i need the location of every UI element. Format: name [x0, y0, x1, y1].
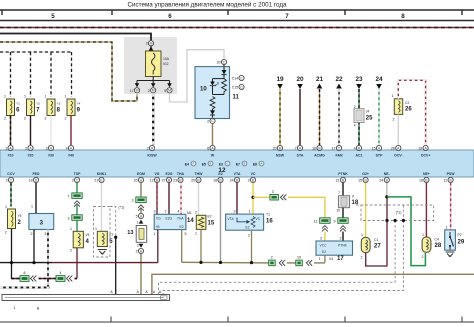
connector 11 on VCC wire [320, 218, 330, 224]
ECM pin #10 [5, 145, 13, 150]
svg-text:25: 25 [366, 116, 373, 122]
wire VC to comp17 [288, 197, 325, 218]
svg-text:2: 2 [70, 249, 72, 253]
svg-text:6: 6 [168, 13, 172, 20]
svg-text:VC: VC [251, 172, 256, 176]
ECM pin TSP [72, 177, 80, 182]
svg-text:15: 15 [372, 147, 376, 151]
svg-text:Система управления двигателем: Система управления двигателем моделей с … [127, 1, 287, 9]
ECM pin #30 [46, 145, 54, 150]
wire FED black [35, 183, 37, 214]
svg-text:1: 1 [446, 226, 448, 230]
connector 10 on E2 trunk [296, 260, 303, 266]
svg-text:20: 20 [134, 179, 138, 183]
svg-text:PTNK: PTNK [338, 172, 348, 176]
ECM pin VC [248, 177, 256, 182]
svg-text:IG2: IG2 [163, 62, 169, 66]
svg-text:E8: E8 [253, 162, 257, 166]
svg-text:M: M [136, 89, 139, 93]
svg-text:2: 2 [361, 256, 363, 260]
wire NE- stub [386, 183, 388, 197]
svg-text:1: 1 [5, 147, 7, 151]
svg-text:1: 1 [249, 209, 251, 213]
svg-text:21: 21 [336, 179, 340, 183]
svg-text:VC: VC [256, 217, 261, 221]
svg-text:20: 20 [296, 76, 304, 83]
svg-text:8: 8 [57, 108, 61, 114]
E2 common trunk [182, 261, 269, 264]
svg-text:1: 1 [137, 221, 139, 225]
comp10 internals: diode top [223, 65, 225, 70]
svg-text:3: 3 [132, 199, 134, 203]
svg-text:2: 2 [18, 220, 22, 226]
wire: maroon/black dashed power bus [0, 27, 474, 29]
svg-text:E2: E2 [208, 215, 212, 219]
ruler strip top [0, 10, 474, 21]
svg-text:4: 4 [354, 147, 356, 151]
ECM pin IGSW [147, 145, 155, 150]
wire PTNK [342, 183, 344, 196]
svg-text:G2+: G2+ [362, 172, 369, 176]
svg-text:#20: #20 [28, 154, 34, 158]
svg-text:10A: 10A [163, 57, 170, 61]
svg-text:1: 1 [24, 95, 26, 99]
ECM pin FAN [332, 145, 342, 150]
wire: black bus feeding fuse [0, 34, 151, 41]
wire comp2 down [12, 229, 21, 279]
ECM pin STA [295, 145, 303, 150]
svg-text:2: 2 [31, 232, 33, 236]
arrow up [139, 220, 144, 224]
svg-text:FAN: FAN [336, 154, 343, 158]
ECM pin G2+ [358, 177, 368, 182]
svg-text:1: 1 [195, 232, 197, 236]
svg-text:M1: M1 [187, 211, 192, 215]
ECM pin ACMG [312, 145, 322, 150]
svg-text:2: 2 [137, 244, 139, 248]
svg-text:15: 15 [208, 221, 215, 227]
wire black dashed off page bottom [0, 287, 50, 289]
junction pin 5 [136, 213, 144, 218]
svg-text:IGSW: IGSW [147, 154, 157, 158]
svg-text:3: 3 [234, 209, 236, 213]
svg-text:E3: E3 [219, 162, 223, 166]
svg-text:2: 2 [248, 234, 250, 238]
svg-text:26: 26 [391, 147, 395, 151]
svg-text:NSW: NSW [276, 154, 285, 158]
svg-text:2: 2 [393, 118, 395, 122]
chevrons [67, 276, 73, 282]
wire: fuse pin5 to component 10 (white) [170, 50, 225, 102]
svg-text:6: 6 [16, 108, 20, 114]
svg-text:VG: VG [154, 172, 159, 176]
svg-text:27: 27 [162, 179, 166, 183]
svg-text:16: 16 [312, 147, 316, 151]
wire shield drain to bus [115, 237, 117, 294]
svg-text:24: 24 [375, 76, 383, 83]
wire PSW pink dashed [450, 183, 452, 230]
wire THA [180, 183, 182, 215]
svg-text:#40: #40 [68, 154, 74, 158]
svg-text:6: 6 [207, 147, 209, 151]
connector 8 [20, 276, 29, 282]
svg-text:3: 3 [154, 210, 156, 214]
svg-text:E2G: E2G [166, 216, 173, 220]
svg-text:19: 19 [418, 147, 422, 151]
svg-text:18: 18 [29, 179, 33, 183]
svg-text:A: A [159, 290, 162, 294]
wire THW white [198, 183, 200, 216]
comp10 lower resistor + diode [210, 97, 215, 109]
svg-text:10: 10 [297, 256, 301, 260]
svg-text:1: 1 [392, 94, 394, 98]
wire E2G [168, 183, 170, 215]
svg-text:2: 2 [6, 179, 8, 183]
svg-text:4: 4 [60, 271, 62, 275]
svg-text:8: 8 [24, 271, 26, 275]
svg-text:18: 18 [213, 179, 217, 183]
svg-text:4: 4 [86, 239, 90, 245]
svg-text:4: 4 [66, 147, 68, 151]
ECM pin E2 [213, 177, 223, 182]
svg-text:29: 29 [458, 240, 465, 246]
wire TPS E2 down [251, 230, 253, 262]
ECM pin EOM [134, 177, 144, 182]
wire injector 7 to ECM [30, 116, 32, 146]
ECM band component 12 [0, 150, 474, 177]
wire VTA maroon [236, 183, 238, 214]
svg-text:24: 24 [379, 179, 383, 183]
wire NE+ maroon [425, 183, 427, 237]
wire TSP green [76, 183, 78, 193]
svg-text:21: 21 [316, 76, 324, 83]
svg-text:A: A [110, 290, 113, 294]
svg-text:C: C [226, 162, 228, 166]
wire injector 8 to ECM [50, 116, 52, 146]
svg-text:NE-: NE- [384, 172, 391, 176]
svg-text:7: 7 [68, 195, 70, 199]
resistor unit 13 [136, 226, 147, 243]
wire EOM [140, 183, 142, 197]
svg-text:2: 2 [65, 117, 67, 121]
svg-text:THA: THA [177, 172, 185, 176]
svg-text:TSP: TSP [74, 172, 81, 176]
svg-text:E7: E7 [236, 162, 240, 166]
svg-text:2: 2 [248, 179, 250, 183]
svg-text:C4: C4 [435, 238, 439, 242]
ECM pin NE+ [419, 177, 429, 182]
sensor unit 10 [195, 67, 230, 119]
ECM pin CCV [6, 177, 14, 182]
svg-text:4: 4 [178, 210, 180, 214]
junction pin 2 [136, 248, 144, 253]
svg-text:2: 2 [45, 117, 47, 121]
svg-text:P2: P2 [458, 233, 462, 237]
wire comp10 to W pin [212, 124, 214, 146]
wire comp15 to E2 trunk [200, 229, 202, 262]
wire comp4 down [76, 248, 78, 278]
svg-text:E2: E2 [246, 225, 250, 229]
connector 9 on PTNK wire [338, 218, 348, 224]
wire G2+ yellow [365, 183, 367, 237]
fuse pin 3 [146, 41, 154, 46]
wire comp3 pin2 to trunk [33, 230, 35, 263]
svg-text:OCV-: OCV- [394, 154, 403, 158]
svg-text:2: 2 [207, 119, 209, 123]
comp10 resistor right branch [222, 79, 227, 95]
svg-text:3: 3 [146, 42, 148, 46]
svg-text:2: 2 [24, 117, 26, 121]
ECM pin VTA [230, 177, 240, 182]
svg-text:17: 17 [130, 89, 134, 93]
svg-text:11: 11 [443, 179, 447, 183]
svg-text:OCV+: OCV+ [421, 154, 431, 158]
ECM pin E2G [162, 177, 172, 182]
ECM pin PTNK [336, 177, 346, 182]
svg-text:2: 2 [147, 147, 149, 151]
svg-text:B: B [244, 162, 246, 166]
svg-text:5: 5 [164, 89, 166, 93]
ECM pin #20 [25, 145, 33, 150]
wire injector 6 to ECM [10, 116, 12, 146]
ECM pin NSW [273, 145, 283, 150]
shield box around knock sensor [94, 207, 116, 258]
svg-text:2: 2 [422, 255, 424, 259]
svg-text:9: 9 [77, 108, 81, 114]
svg-text:3: 3 [320, 236, 322, 240]
svg-text:5: 5 [185, 232, 187, 236]
svg-text:T1: T1 [266, 213, 270, 217]
svg-text:7: 7 [36, 108, 40, 114]
svg-text:15: 15 [358, 179, 362, 183]
svg-text:PTNK: PTNK [338, 243, 348, 247]
ground bus bar [2, 295, 170, 301]
wire [76, 205, 78, 215]
ECM pin OCV+ [418, 145, 428, 150]
svg-text:10: 10 [336, 209, 340, 213]
svg-text:2: 2 [136, 250, 138, 254]
svg-text:NE+: NE+ [423, 172, 430, 176]
svg-text:2: 2 [148, 89, 150, 93]
ECM pin NE- [379, 177, 389, 182]
svg-text:3: 3 [46, 147, 48, 151]
svg-text:STA: STA [297, 154, 304, 158]
wire: injector dashed feed bus [0, 51, 72, 53]
svg-text:PSW: PSW [447, 172, 456, 176]
dashed link with connectors 8 and 4 [12, 278, 21, 280]
svg-text:5: 5 [51, 13, 55, 20]
svg-text:Y2: Y2 [36, 102, 40, 106]
svg-text:8: 8 [401, 13, 405, 20]
ECM pin THA [173, 177, 183, 182]
wire comp17 E2 down [324, 255, 326, 263]
wire E2 gray [220, 183, 222, 262]
svg-text:C15: C15 [232, 86, 238, 90]
svg-text:M: M [152, 89, 155, 93]
svg-text:19: 19 [276, 76, 284, 83]
wire MAF pin5 to E2 trunk [181, 230, 183, 263]
svg-text:1: 1 [14, 306, 16, 310]
svg-text:д: д [37, 306, 40, 310]
svg-text:E2: E2 [180, 225, 184, 229]
wire KNK1 silver [101, 183, 103, 232]
svg-text:E2G: E2G [165, 172, 172, 176]
fuse 10A IG2 [146, 51, 162, 77]
svg-text:E: E [210, 162, 212, 166]
ECM pin PSW [443, 177, 453, 182]
svg-text:A: A [153, 290, 156, 294]
svg-text:V5: V5 [86, 233, 90, 237]
wire ground bus olive [152, 274, 474, 294]
svg-text:VTA: VTA [228, 217, 235, 221]
svg-text:Y5: Y5 [18, 214, 22, 218]
svg-text:27: 27 [374, 244, 381, 250]
svg-text:1: 1 [5, 205, 7, 209]
svg-text:FED: FED [33, 172, 40, 176]
svg-text:A: A [137, 290, 140, 294]
svg-text:3: 3 [272, 190, 274, 194]
svg-text:E2: E2 [218, 172, 222, 176]
ruler strip bottom [0, 321, 474, 323]
wire: OCV+ red/white dashed loop [398, 80, 425, 145]
ground comp29 [446, 252, 455, 257]
svg-text:2: 2 [340, 236, 342, 240]
wire: thick black dashed IGSW [152, 93, 154, 145]
svg-text:9: 9 [334, 220, 336, 224]
svg-text:13: 13 [127, 230, 133, 236]
svg-text:M: M [168, 89, 171, 93]
svg-text:23: 23 [173, 179, 177, 183]
svg-text:1: 1 [95, 227, 97, 231]
svg-text:Л: Л [352, 195, 354, 199]
svg-text:2: 2 [165, 210, 167, 214]
ECM pin W [207, 145, 215, 150]
svg-text:20: 20 [191, 179, 195, 183]
svg-text:3: 3 [44, 232, 46, 236]
svg-text:C2: C2 [405, 101, 409, 105]
svg-text:7: 7 [285, 13, 289, 20]
svg-text:24: 24 [230, 179, 234, 183]
svg-text:VCC: VCC [320, 243, 328, 247]
svg-text:4: 4 [354, 124, 356, 128]
wire injector 9 to ECM [70, 116, 72, 146]
svg-text:Y1: Y1 [16, 102, 20, 106]
svg-text:A: A [145, 290, 148, 294]
svg-text:10: 10 [200, 87, 207, 93]
ECM pin STP [372, 145, 382, 150]
svg-text:#10: #10 [8, 154, 14, 158]
svg-text:3: 3 [72, 179, 74, 183]
svg-text:(*1): (*1) [396, 211, 402, 215]
connector 2 on E2 trunk [269, 260, 276, 266]
svg-text:2: 2 [4, 117, 6, 121]
ECM pin OCV- [391, 145, 401, 150]
svg-text:THW: THW [195, 172, 204, 176]
svg-text:C14: C14 [232, 77, 238, 81]
svg-text:20: 20 [273, 147, 277, 151]
svg-text:1: 1 [319, 257, 321, 261]
svg-text:17: 17 [337, 256, 344, 262]
svg-text:3: 3 [68, 217, 70, 221]
wire dashed [39, 278, 57, 280]
ECM pin THW [191, 177, 201, 182]
connector 3 on EOM wire [136, 197, 146, 203]
connector on VC wire [270, 195, 279, 201]
svg-text:J4: J4 [366, 110, 370, 114]
fuse pin 17 [136, 81, 138, 85]
svg-text:(*1): (*1) [119, 206, 125, 210]
svg-text:16: 16 [419, 179, 423, 183]
svg-text:KNK1: KNK1 [97, 172, 107, 176]
svg-text:V4: V4 [329, 257, 333, 261]
ground trunk left [0, 262, 52, 264]
wire: yellow/black dashed bus to fuse pin 17 [0, 42, 137, 101]
svg-text:1: 1 [70, 227, 72, 231]
svg-text:1: 1 [31, 205, 33, 209]
svg-text:28: 28 [435, 243, 442, 249]
svg-text:M: M [150, 42, 153, 46]
svg-text:2: 2 [25, 147, 27, 151]
relay/fuse block M background [124, 37, 177, 94]
wire CCV green/black [10, 183, 12, 207]
svg-text:CCV: CCV [7, 172, 15, 176]
fuse pin 2 [152, 81, 154, 85]
svg-text:1: 1 [4, 95, 6, 99]
svg-text:VG: VG [156, 216, 161, 220]
svg-text:7: 7 [295, 147, 297, 151]
wire comp3 pin3 black dashed off-page [0, 230, 48, 288]
svg-text:E4: E4 [185, 162, 189, 166]
svg-text:11: 11 [314, 220, 318, 224]
wire [76, 220, 78, 231]
connector chevrons [74, 201, 80, 207]
connector 4 [56, 276, 65, 282]
svg-text:22: 22 [335, 76, 343, 83]
wire coil26 to OCV- [397, 114, 399, 145]
ground of knock sensor [98, 250, 107, 255]
svg-text:11: 11 [233, 95, 240, 101]
svg-text:21: 21 [94, 179, 98, 183]
svg-text:Y4: Y4 [77, 102, 81, 106]
chevrons [31, 276, 37, 282]
svg-text:Y3: Y3 [57, 102, 61, 106]
svg-text:2: 2 [271, 256, 273, 260]
wire NE- to comp28 green [387, 197, 426, 266]
svg-text:26: 26 [405, 107, 412, 113]
svg-text:VTA: VTA [234, 172, 241, 176]
svg-text:5: 5 [136, 215, 138, 219]
svg-text:A: A [261, 162, 263, 166]
svg-text:16: 16 [266, 219, 273, 225]
svg-text:1: 1 [65, 95, 67, 99]
wire comp27 to NE- [366, 198, 387, 266]
svg-text:23: 23 [355, 76, 363, 83]
wire VG [156, 183, 158, 215]
wire [75, 278, 78, 280]
comp10 zener + resistor loop [213, 78, 225, 80]
pin 2 of comp 10 [207, 118, 215, 123]
svg-text:1: 1 [153, 232, 155, 236]
svg-text:EOM: EOM [137, 172, 145, 176]
svg-text:#30: #30 [48, 154, 54, 158]
connector 7 on TSP wire [72, 193, 82, 199]
arrow into fuse [148, 47, 153, 52]
wire MAF pin1 to trunk [157, 230, 159, 263]
wire comp13 to bus [140, 254, 142, 295]
svg-text:14: 14 [187, 218, 194, 224]
ECM pin AC1 [354, 145, 362, 150]
wire fuse out [152, 77, 154, 81]
